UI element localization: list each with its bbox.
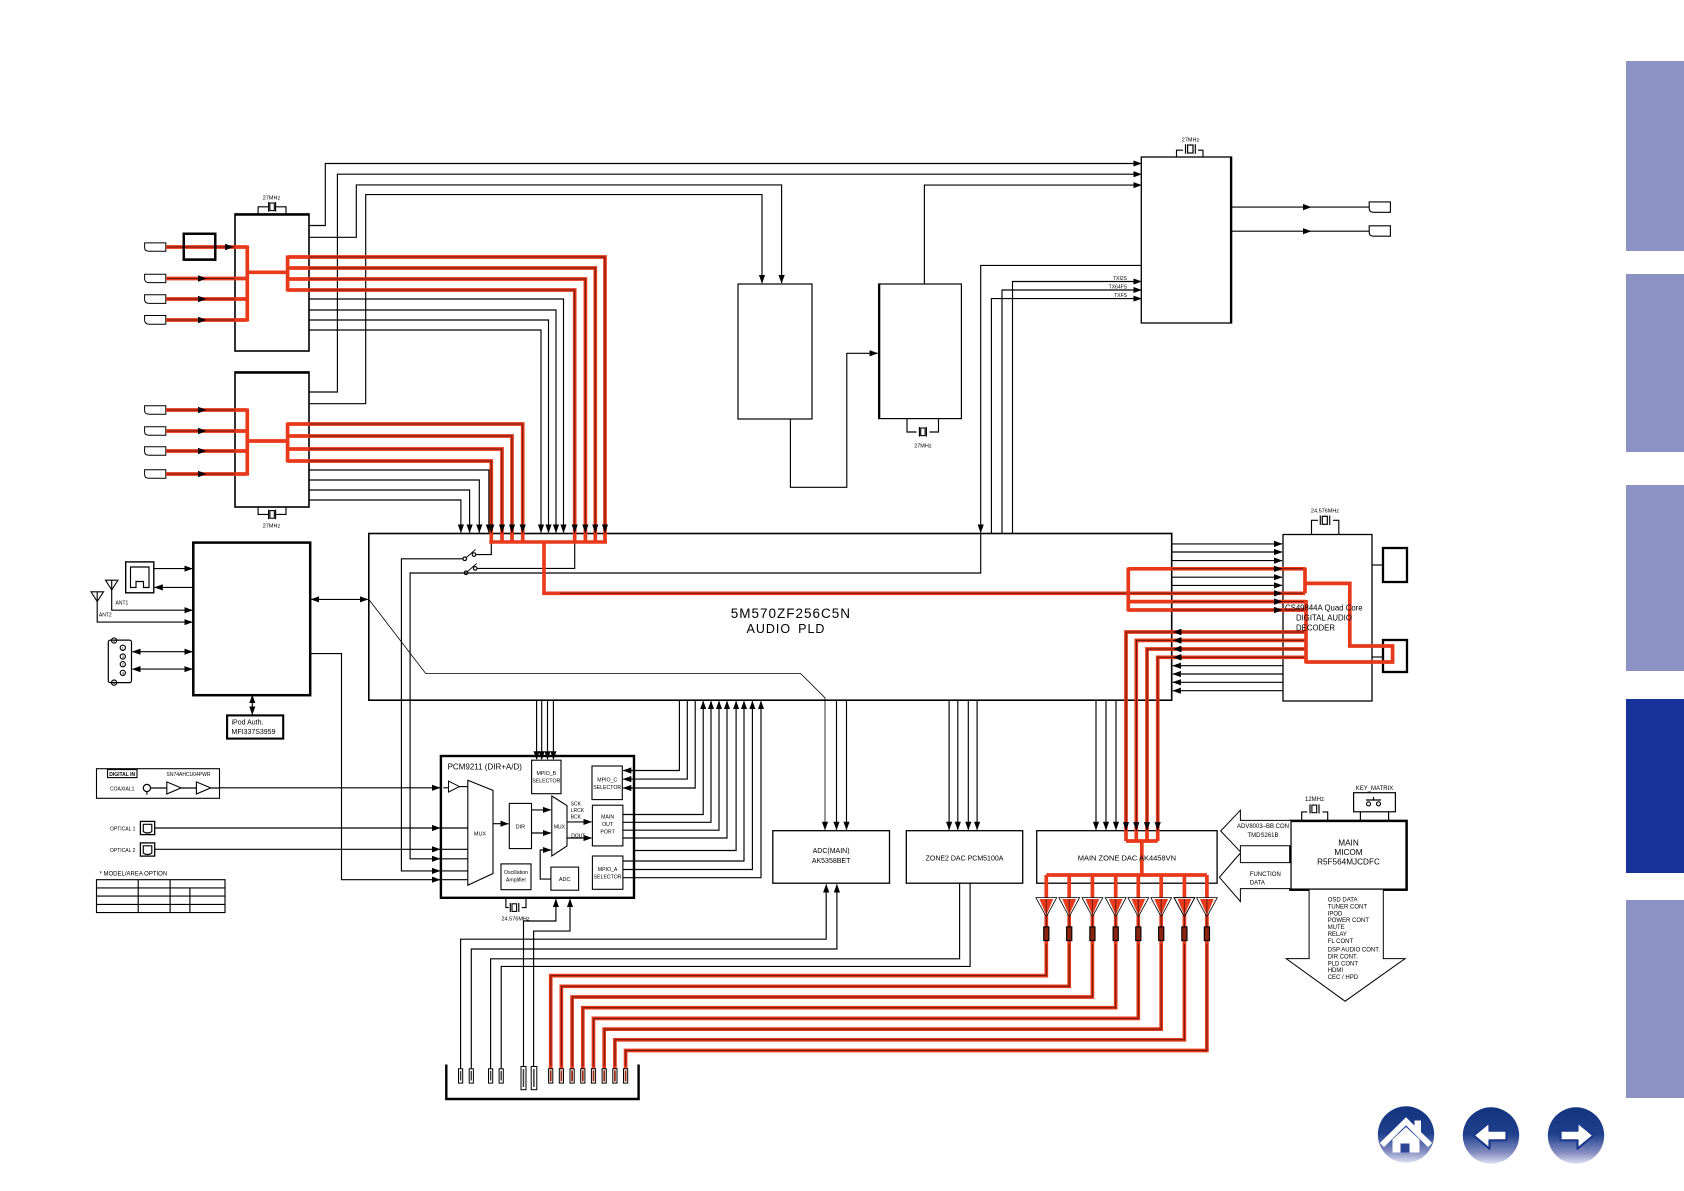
red DAC output column 2 — [561, 875, 1069, 1069]
red DAC output column 7 — [615, 875, 1185, 1069]
connector pin 9 (red) — [570, 1069, 574, 1083]
wire J2 to U8 lower — [133, 668, 193, 670]
svg-text:TXI2S: TXI2S — [1113, 276, 1128, 282]
svg-text:SELECTOR: SELECTOR — [532, 779, 560, 785]
red DAC output column 1 — [551, 875, 1047, 1069]
sidebar tab 3 — [1626, 485, 1684, 671]
output amp A1 — [1036, 898, 1057, 917]
wire PLD to MAIN DAC pin1 — [1095, 700, 1097, 830]
svg-text:TMDS261B: TMDS261B — [1247, 833, 1278, 839]
wire MPIO_A to PLD pin1 — [623, 701, 744, 861]
svg-text:MUX: MUX — [474, 832, 487, 838]
svg-text:Amplifier: Amplifier — [506, 878, 526, 884]
wire PLD to MAIN DAC pin3 — [1115, 700, 1117, 830]
wire DIR to MUX2 upper — [532, 809, 551, 811]
crystal X6 24.576MHz — [509, 903, 511, 912]
wire connector pin4 to ZONE2 DAC — [501, 883, 970, 1069]
red bracket V2b inside decoder — [1304, 600, 1308, 664]
filter resistor R6 — [1159, 927, 1164, 941]
svg-text:MPIO_B: MPIO_B — [536, 771, 556, 777]
nav button back — [1463, 1107, 1519, 1163]
wire MPIO_A to PLD pin2 — [623, 701, 753, 869]
wire ADC in 2 (from connector) — [534, 899, 570, 1069]
svg-text:OSD DATA: OSD DATA — [1328, 898, 1358, 904]
main out port — [592, 805, 623, 846]
red DAC output column 4 — [583, 875, 1116, 1069]
connector plug CN3 — [145, 274, 166, 282]
connector pin 11 (red) — [591, 1069, 595, 1083]
digital in box — [97, 769, 220, 799]
arrowheads into PLD top (red bus teeth) — [488, 525, 494, 534]
MPIO_C selector — [592, 766, 622, 800]
wire J2 to U8 upper — [133, 651, 193, 653]
nav button home — [1378, 1106, 1434, 1162]
red bus U1 out 4 — [288, 290, 575, 542]
wire CN2 to U1 — [166, 246, 235, 248]
red bus U1 out 1 — [288, 257, 605, 542]
svg-text:SCK: SCK — [571, 802, 582, 808]
wire buffer to MUX1 — [459, 786, 467, 788]
optical jack OPTICAL1 — [140, 821, 154, 834]
connector plug CN6 — [145, 406, 166, 415]
svg-text:FUNCTION: FUNCTION — [1250, 872, 1281, 878]
wire U1 black out 1 — [309, 299, 564, 533]
wire PLD to ZONE2 DAC pin2 — [957, 700, 959, 830]
wire ANT1 to U8 — [112, 590, 193, 610]
crystal X7 12MHz — [1309, 804, 1311, 813]
connector pin 6 (tall) — [531, 1067, 537, 1090]
svg-text:ZONE2 DAC PCM5100A: ZONE2 DAC PCM5100A — [926, 856, 1004, 863]
filter resistor R3 — [1090, 927, 1095, 941]
arrowheads on HDMI input lines — [225, 244, 234, 250]
output amp A2 — [1059, 898, 1080, 917]
wire U5 to PLD (feedback) — [981, 265, 1142, 532]
connector plug CN2 — [145, 243, 166, 251]
output amp A4 — [1105, 898, 1126, 917]
connector plug CN9 — [145, 470, 166, 479]
HDMI out plug P1 — [1369, 202, 1390, 212]
red bus U1 out 2 — [288, 268, 596, 542]
arrowheads into MAIN DAC top (red columns) — [1123, 822, 1129, 831]
connector plug CN5 — [145, 316, 166, 325]
svg-text:PORT: PORT — [600, 830, 615, 836]
mini-DIN connector J2 — [108, 640, 131, 683]
red PLD main run to decoder — [542, 591, 1305, 595]
red DAC feed row 2 — [1136, 640, 1306, 841]
SPDIF square J10 — [1383, 548, 1407, 582]
wire U2 to U5 (line2) — [309, 174, 1141, 392]
wire U1 black out 2 — [309, 310, 556, 533]
wire U1 black out 4 — [309, 330, 541, 533]
svg-text:PCM9211 (DIR+A/D): PCM9211 (DIR+A/D) — [448, 763, 523, 772]
wire PLD to U5 TXI2S — [1013, 282, 1142, 534]
wire MUX1 inputs joins — [441, 828, 468, 880]
red bus U2 out 2 — [288, 436, 512, 542]
red DAC feed row 4 — [1158, 657, 1306, 841]
red bracket inside MAIN DAC — [1046, 841, 1207, 875]
wire DIR to MUX2 lower — [532, 832, 551, 834]
svg-text:OUT: OUT — [602, 822, 614, 828]
connector pin 8 (red) — [559, 1069, 563, 1083]
crystal X5 24.576MHz — [1319, 516, 1321, 526]
wire PLD to MPIO_B pin4 — [552, 700, 554, 759]
wire SW1 pivot to PCM9211 — [401, 559, 463, 871]
antenna ANT2 — [91, 592, 104, 602]
model/area option table — [97, 880, 226, 913]
output amp A8 — [1197, 898, 1218, 917]
wire MAIN OUT to PLD pin3 — [623, 701, 719, 830]
ADC sub-block — [551, 867, 579, 890]
crystal X5 24.576MHz bracket (above U7) — [1312, 520, 1339, 534]
wire coaxial chain — [151, 787, 440, 789]
red branch row 569 — [1128, 567, 1305, 571]
wire SW1 to HDMI bus tooth — [476, 534, 492, 555]
wire CN8 to U2 — [166, 450, 235, 452]
red branch row 602 — [1128, 600, 1306, 604]
wire CN5 to U1 — [166, 319, 235, 321]
svg-text:KEY_MATRIX: KEY_MATRIX — [1356, 786, 1394, 792]
bottom connector CN1 bracket — [446, 1065, 638, 1100]
svg-text:POWER CONT: POWER CONT — [1328, 918, 1370, 924]
svg-text:TUNER CONT: TUNER CONT — [1328, 904, 1368, 910]
red bracket V2a inside decoder — [1303, 568, 1307, 594]
red bus U2 out 1 — [288, 424, 523, 542]
wire MUX2 to MAIN OUT (clk) — [567, 821, 591, 823]
svg-text:RELAY: RELAY — [1328, 932, 1347, 938]
sidebar tab 2 — [1626, 274, 1684, 452]
svg-text:DIGITAL AUDIO: DIGITAL AUDIO — [1296, 614, 1352, 623]
svg-text:MPIO_A: MPIO_A — [598, 867, 618, 873]
filter resistor R5 — [1136, 927, 1141, 941]
connector pin 5 (tall) — [521, 1067, 526, 1090]
svg-text:27MHz: 27MHz — [263, 524, 281, 530]
optical jack OPTICAL2 — [140, 843, 154, 856]
svg-text:LRCK: LRCK — [571, 808, 585, 814]
red bus U2 out 3 — [288, 449, 502, 542]
svg-text:5M570ZF256C5N: 5M570ZF256C5N — [731, 606, 851, 621]
filter resistor R8 — [1204, 927, 1209, 941]
buffer amp A — [167, 782, 181, 794]
nav button forward — [1548, 1107, 1604, 1163]
wire U5 to HDMI out P1 — [1232, 206, 1370, 208]
connector plug CN8 — [145, 447, 166, 456]
wire U8 to PCM9211 (SPDIF) — [310, 654, 440, 880]
wire CN4 to U1 — [166, 298, 235, 300]
connector pin 12 (red) — [602, 1069, 606, 1083]
svg-text:DOUT: DOUT — [571, 834, 585, 840]
svg-text:COAXIAL1: COAXIAL1 — [110, 786, 135, 792]
wire connector pin3 to ZONE2 DAC — [491, 883, 960, 1069]
red PLD center drop — [542, 541, 546, 594]
svg-text:3: 3 — [122, 655, 124, 659]
connector pin 10 (red) — [581, 1069, 585, 1083]
wire coax entry to buffer — [443, 787, 448, 789]
MAIN ZONE DAC AK4458VN U13 — [1037, 831, 1217, 884]
wire PLD to ZONE2 DAC pin4 — [976, 700, 978, 830]
svg-text:MAIN: MAIN — [1338, 839, 1359, 848]
wire CN9 to U2 — [166, 473, 235, 475]
connector plug CN4 — [145, 295, 166, 304]
svg-text:12MHz: 12MHz — [1305, 797, 1324, 803]
wire U5 to HDMI out P2 — [1232, 230, 1370, 232]
wire MPIO_A to PLD pin3 — [623, 701, 761, 878]
svg-text:PLD CONT: PLD CONT — [1328, 961, 1359, 967]
sidebar tab 5 — [1626, 900, 1684, 1098]
svg-text:ADC(MAIN): ADC(MAIN) — [813, 848, 850, 855]
wire U2 black out 2 — [309, 480, 479, 533]
video block U3 — [738, 284, 812, 419]
svg-text:DIGITAL IN: DIGITAL IN — [109, 772, 135, 778]
svg-text:DIR CONT.: DIR CONT. — [1328, 954, 1358, 960]
wire ADC DOUT to PLD — [634, 701, 736, 850]
svg-text:IPOD: IPOD — [1328, 911, 1343, 917]
svg-text:Oscillation: Oscillation — [504, 870, 528, 876]
svg-text:24.576MHz: 24.576MHz — [1311, 509, 1339, 515]
wire RJ45 to U8 — [154, 568, 193, 570]
wire optical2 to PCM9211 — [155, 848, 440, 850]
wire U1 to U5 (line1) — [309, 164, 1141, 226]
svg-text:TX64FS: TX64FS — [1109, 285, 1128, 291]
svg-text:FL CONT: FL CONT — [1328, 939, 1354, 945]
svg-text:OPTICAL 2: OPTICAL 2 — [110, 848, 136, 854]
output amp A3 — [1082, 898, 1103, 917]
crystal X2 27MHz bracket (below U2) — [258, 507, 286, 514]
svg-text:DIR: DIR — [516, 825, 526, 831]
wire U2 black out 4 — [309, 500, 461, 533]
crystal X3 27MHz — [918, 427, 920, 437]
wire SW2 to HDMI bus tooth — [477, 534, 575, 569]
wire MUX1 to DIR — [493, 823, 508, 825]
wire PLD to MPIO_C pin1 — [623, 700, 679, 770]
wire PLD to MPIO_B pin3 — [547, 700, 549, 759]
block arrow ADV8003 — [1221, 810, 1291, 852]
svg-text:27MHz: 27MHz — [914, 444, 932, 450]
svg-text:OPTICAL 1: OPTICAL 1 — [110, 826, 136, 832]
crystal X1 27MHz bracket — [258, 207, 286, 214]
connector plug CN7 — [145, 427, 166, 436]
wire decoder to J10 — [1372, 564, 1383, 566]
connector pin 1 — [459, 1069, 463, 1083]
wire PLD to MPIO_C pin3 — [623, 700, 695, 788]
video encoder U4 — [879, 284, 962, 419]
wire ADC to MUX2 — [540, 850, 551, 879]
output amp A7 — [1174, 898, 1195, 917]
wire PLD to U5 TXFS — [991, 299, 1141, 534]
svg-text:27MHz: 27MHz — [1182, 138, 1200, 144]
wire U8 to RJ45 — [155, 586, 194, 588]
connector pin 2 — [469, 1069, 473, 1083]
red bus U1 out 3 — [288, 279, 586, 542]
arrowheads into PLD (red DAC rows) — [1173, 629, 1182, 635]
crystal X7 12MHz bracket (above micom) — [1302, 812, 1328, 821]
connector pin 4 — [499, 1069, 503, 1083]
filter resistor R4 — [1113, 927, 1118, 941]
audio PLD U6 — [369, 534, 1172, 701]
HDMI receiver U2 — [235, 372, 309, 507]
output mux MUX2 — [552, 796, 567, 856]
svg-text:24.576MHz: 24.576MHz — [502, 917, 530, 923]
svg-text:AK5358BET: AK5358BET — [812, 858, 851, 865]
crystal X4 27MHz — [1185, 144, 1187, 154]
svg-text:HDMI: HDMI — [1328, 968, 1344, 974]
svg-text:4: 4 — [122, 671, 124, 675]
svg-text:MFI337S3959: MFI337S3959 — [232, 729, 276, 736]
wire ANT2 to U8 — [97, 602, 192, 623]
svg-text:R5F564MJCDFC: R5F564MJCDFC — [1317, 858, 1380, 867]
wire PLD to ADC(MAIN) pin2 — [836, 700, 838, 830]
HDMI out plug P2 — [1369, 226, 1390, 236]
coax input buffer amp — [449, 781, 460, 792]
key matrix tact switch — [1367, 802, 1371, 806]
main micom U14 — [1290, 821, 1406, 890]
ZONE2 DAC PCM5100A U12 — [906, 831, 1022, 884]
MPIO_A selector — [592, 856, 623, 889]
svg-text:MUX: MUX — [554, 825, 566, 831]
red DAC output column 8 — [626, 875, 1207, 1069]
sidebar tab 1 — [1626, 61, 1684, 251]
wire PLD to ZONE2 DAC pin1 — [948, 700, 950, 830]
red branch bracket V1 — [1126, 568, 1130, 612]
svg-text:ADC: ADC — [559, 877, 571, 883]
wire U2 to U3 (line4) — [309, 195, 762, 404]
crystal X4 27MHz bracket (above U5) — [1177, 150, 1204, 157]
block arrow FUNCTION DATA — [1219, 853, 1290, 902]
wire decoder to J11 — [1372, 656, 1383, 658]
wire U1 black out 3 — [309, 320, 549, 533]
red bus U2 out 4 — [288, 461, 492, 542]
oscillation amplifier — [501, 864, 531, 890]
svg-text:5: 5 — [113, 639, 115, 643]
svg-text:MICOM: MICOM — [1334, 848, 1362, 857]
svg-text:1: 1 — [122, 646, 124, 650]
wire U8 to iPod auth — [251, 695, 253, 714]
svg-text:DECODER: DECODER — [1296, 624, 1335, 633]
key matrix switch box — [1354, 793, 1396, 812]
red DAC output column 6 — [604, 875, 1161, 1069]
svg-text:DSP AUDIO CONT.: DSP AUDIO CONT. — [1328, 948, 1381, 954]
wire U1 to U3 (line3) — [309, 185, 782, 283]
connector pin 13 (red) — [613, 1069, 617, 1083]
svg-text:* MODEL/AREA OPTION: * MODEL/AREA OPTION — [100, 872, 168, 878]
crystal X3 27MHz bracket (below U4) — [907, 419, 939, 432]
svg-text:MAIN: MAIN — [601, 815, 614, 821]
svg-text:ANT2: ANT2 — [99, 613, 112, 619]
big down arrow (micom outputs) — [1286, 890, 1405, 1002]
wire U3 to U4 — [790, 353, 877, 487]
wire MAIN OUT to PLD pin1 — [623, 701, 703, 814]
wire U8 to PLD bidirectional — [311, 598, 368, 600]
filter resistor R2 — [1067, 927, 1072, 941]
svg-text:SELECTOR: SELECTOR — [593, 785, 621, 791]
red DAC output column 5 — [594, 875, 1139, 1069]
sidebar tab 4 (active) — [1626, 699, 1684, 873]
wire decoder to PLD bus (8 lines) — [1173, 632, 1283, 691]
PCM9211 U10 — [441, 756, 634, 898]
buffer amp B — [196, 782, 210, 794]
ESD protector Z1 (outline over red) — [184, 234, 216, 260]
PLD switch SW2 — [464, 571, 468, 575]
crystal X1 27MHz — [268, 202, 270, 212]
svg-text:CEC / HPD: CEC / HPD — [1328, 975, 1359, 981]
svg-text:SN74AHCU04PWR: SN74AHCU04PWR — [167, 772, 211, 778]
wire PLD to decoder bus (9 lines) — [1172, 544, 1282, 610]
wire PLD to MPIO_B pin2 — [541, 700, 543, 759]
wire SW2 pivot / U5 return line — [410, 534, 981, 859]
connector pin 7 (red) — [549, 1069, 553, 1083]
wire PLD to ZONE2 DAC pin3 — [967, 700, 969, 830]
wire PLD to MAIN DAC pin2 — [1105, 700, 1107, 830]
svg-text:MPIO_C: MPIO_C — [597, 778, 617, 784]
wire U2 black out 3 — [309, 490, 470, 533]
red comb bar inside PLD — [489, 540, 607, 544]
svg-text:BCK: BCK — [571, 815, 582, 821]
wire MUX2 to MAIN OUT (DOUT) — [567, 837, 591, 839]
filter resistor R1 — [1044, 927, 1049, 941]
wire PLD internal iPod-audio diagonal — [369, 599, 825, 829]
MPIO_B selector — [532, 760, 561, 794]
wire CN6 to U2 — [166, 409, 235, 411]
iPod auth IC U9 — [227, 715, 283, 738]
red DAC feed row 1 — [1126, 632, 1306, 841]
svg-text:27MHz: 27MHz — [263, 196, 281, 202]
filter resistor R7 — [1182, 927, 1187, 941]
svg-text:SELECTOR: SELECTOR — [594, 875, 622, 881]
red highlight: U2 HDMI input lines — [166, 410, 247, 474]
svg-text:CS49844A Quad Core: CS49844A Quad Core — [1285, 604, 1363, 613]
red DAC feed row 3 — [1147, 649, 1306, 841]
crystal X6 24.576MHz bracket (below PCM9211) — [506, 898, 526, 908]
input mux MUX1 — [468, 780, 493, 885]
network module U8 — [193, 543, 310, 696]
svg-text:MUTE: MUTE — [1328, 925, 1345, 931]
red branch row 610 — [1128, 608, 1306, 612]
wire MAIN OUT to PLD pin4 — [623, 701, 727, 838]
svg-text:MAIN ZONE DAC AK4458VN: MAIN ZONE DAC AK4458VN — [1078, 854, 1176, 863]
wire CN7 to U2 — [166, 430, 235, 432]
wire CN3 to U1 — [166, 278, 235, 280]
svg-text:ANT1: ANT1 — [116, 601, 129, 607]
key matrix wires to micom — [1360, 812, 1388, 821]
RJ45 jack J1 — [126, 562, 154, 593]
wire MAIN OUT to PLD pin2 — [623, 701, 711, 822]
PLD switch SW1 — [463, 557, 467, 561]
wire optical1 to PCM9211 — [155, 827, 440, 829]
wire ADC in 1 (from connector) — [524, 899, 556, 1069]
antenna ANT1 — [106, 580, 119, 590]
output amp A5 — [1128, 898, 1149, 917]
red highlight: U1 HDMI input lines — [166, 247, 247, 320]
connector pin 3 — [489, 1069, 493, 1083]
wire U4 to U5 — [924, 185, 1141, 284]
SPDIF square J11 — [1383, 640, 1407, 672]
red junction bar U1 inputs — [247, 246, 287, 322]
wire PLD to ADC(MAIN) pin3 — [846, 700, 848, 830]
DIR block — [509, 803, 531, 848]
red elbow to SPDIF square — [1305, 583, 1393, 662]
arrowheads into decoder (red rows) — [1274, 566, 1283, 572]
svg-text:iPod Auth.: iPod Auth. — [232, 720, 264, 727]
svg-text:2: 2 — [122, 663, 124, 667]
svg-text:DATA: DATA — [1250, 881, 1265, 887]
wire PLD to U5 TX64FS — [1002, 290, 1141, 534]
connector pin 14 (red) — [624, 1069, 628, 1083]
crystal X2 27MHz — [268, 510, 270, 520]
ADC(MAIN) AK5358BET U11 — [773, 831, 890, 884]
svg-text:AUDIO PLD: AUDIO PLD — [747, 622, 826, 636]
wire connector pin1 to ADC(MAIN) — [461, 885, 827, 1069]
svg-text:TXFS: TXFS — [1114, 293, 1127, 299]
red DAC output column 3 — [572, 875, 1092, 1069]
